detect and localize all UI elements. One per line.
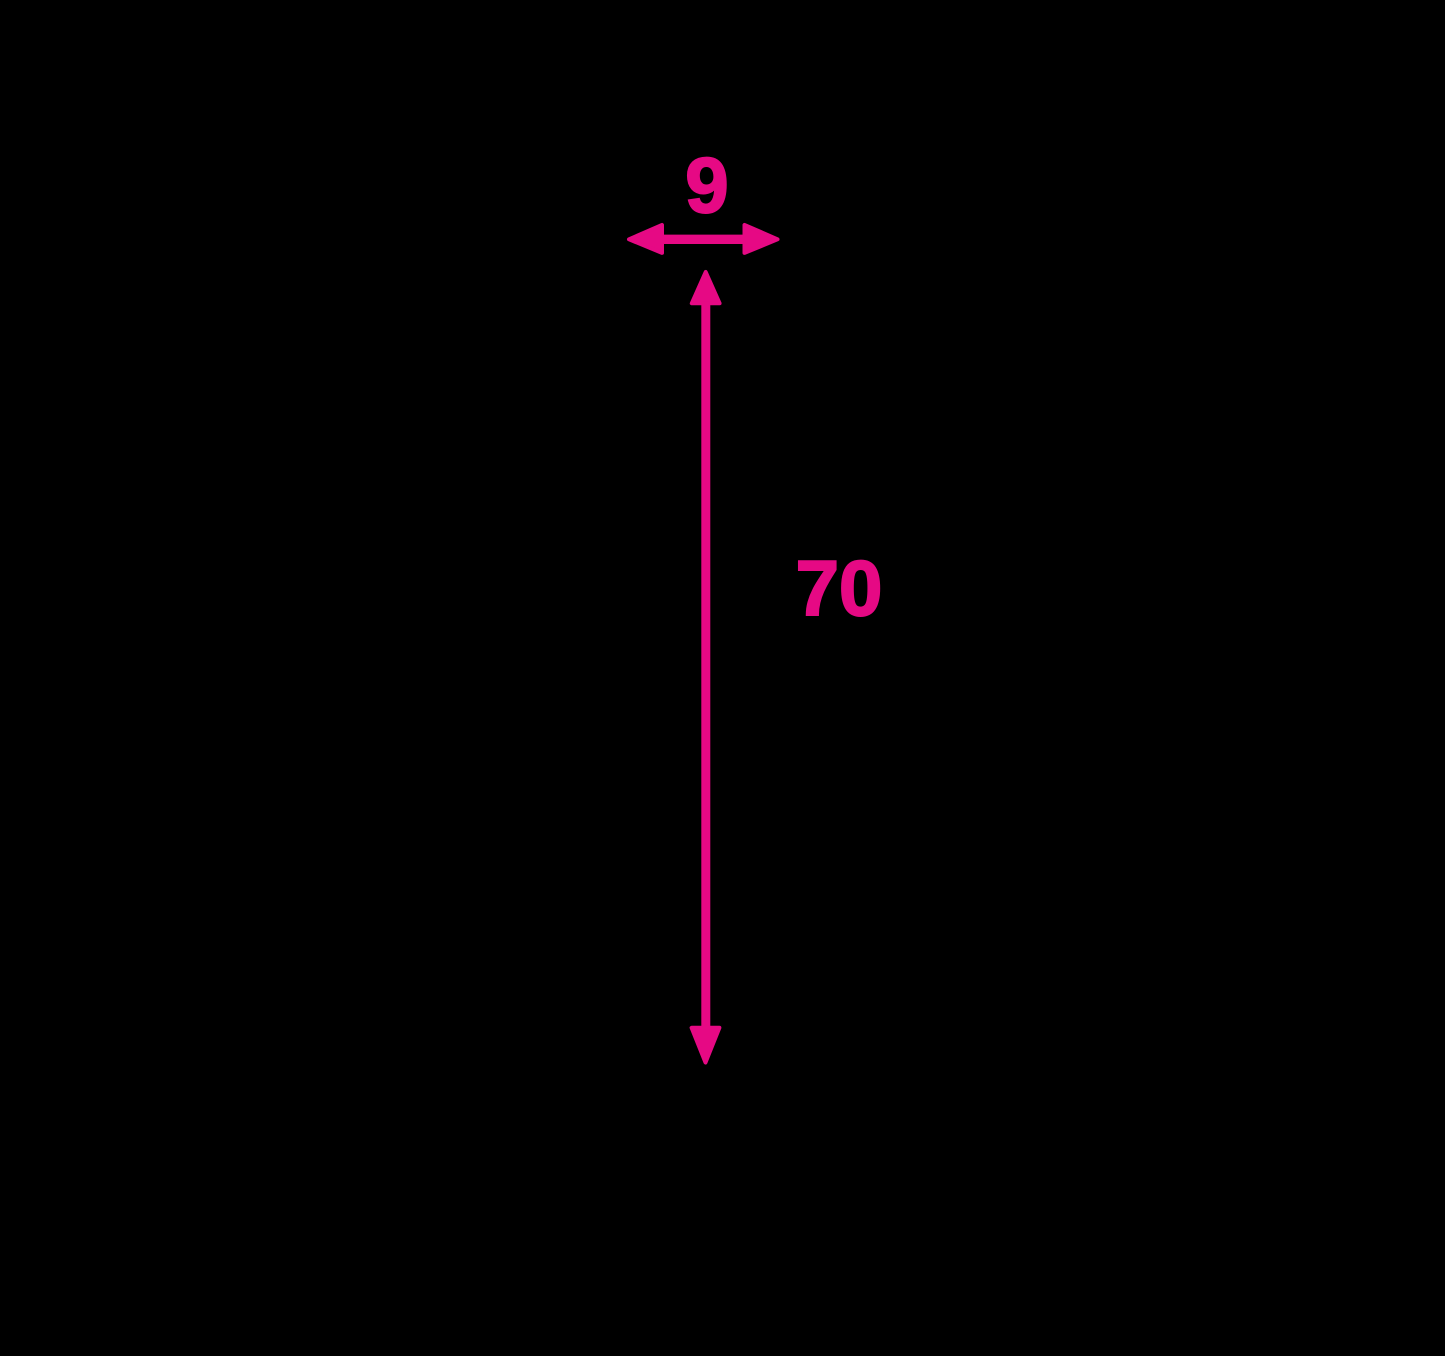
svg-text:9: 9 [685, 141, 728, 229]
vertical dimension arrow (height = 70) [692, 272, 720, 1063]
svg-text:70: 70 [796, 544, 883, 632]
arrowhead left [629, 225, 662, 253]
arrowhead right [745, 225, 778, 253]
wire: vertical shaft [703, 300, 708, 1030]
horizontal dimension arrow (width = 9) [629, 225, 778, 253]
wire: horizontal shaft [655, 237, 751, 242]
arrowhead top [692, 272, 720, 303]
arrowhead bottom [692, 1028, 720, 1063]
